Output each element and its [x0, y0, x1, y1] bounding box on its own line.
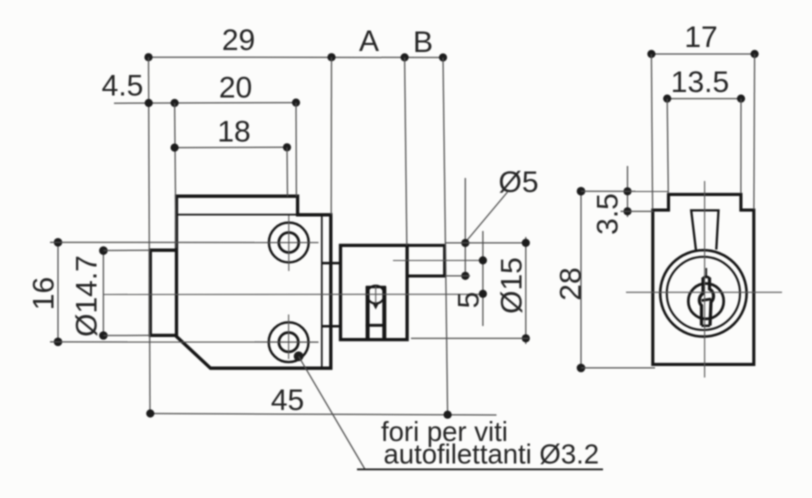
cylinder boss: [150, 250, 176, 335]
svg-text:45: 45: [271, 384, 304, 417]
svg-text:Ø5: Ø5: [498, 166, 538, 199]
screw hole lower: [269, 315, 309, 363]
svg-text:Ø15: Ø15: [496, 257, 529, 314]
leader line to note: [299, 356, 365, 469]
svg-text:5: 5: [453, 292, 486, 309]
dimension diameter 15: [411, 237, 530, 344]
dimension 45: [146, 409, 496, 418]
adjusting screw circle: [367, 286, 385, 304]
body outline front view: [653, 194, 754, 364]
horizontal centerline front view: [626, 291, 782, 293]
faceplate inner line: [321, 216, 323, 368]
svg-text:Ø14.7: Ø14.7: [71, 255, 104, 337]
note underline: [357, 468, 603, 470]
keyhole: [699, 268, 713, 326]
latch pin arm: [407, 245, 445, 276]
svg-text:18: 18: [217, 116, 250, 149]
slot inner line: [366, 324, 386, 327]
dimension 17: [647, 50, 758, 210]
svg-text:16: 16: [28, 277, 61, 310]
svg-text:13.5: 13.5: [671, 66, 729, 99]
dimension diameter 5 with leader: [446, 178, 529, 280]
svg-text:4.5: 4.5: [102, 70, 144, 103]
leader dot on lower screw hole: [294, 351, 304, 361]
dimension 28: [577, 187, 668, 372]
dimension 29 / A / B: [144, 53, 447, 415]
vertical centerline front view: [704, 181, 706, 378]
cylinder outer circle: [660, 250, 746, 336]
svg-text:28: 28: [555, 267, 588, 300]
pin centerline: [393, 259, 486, 261]
svg-text:17: 17: [684, 21, 717, 54]
screw hole upper: [269, 216, 309, 272]
body outline left view: [177, 196, 331, 368]
slot top edge: [366, 286, 386, 289]
latch tab lower stub: [322, 325, 341, 328]
cam block: [341, 245, 408, 339]
svg-text:20: 20: [219, 72, 252, 105]
dimension 18: [171, 143, 292, 196]
svg-text:autofilettanti Ø3.2: autofilettanti Ø3.2: [384, 439, 600, 470]
svg-text:29: 29: [222, 24, 255, 57]
dimension 16: [50, 238, 319, 346]
body top plate line: [177, 214, 298, 216]
dimension diameter 14.7: [99, 246, 150, 340]
key cap trapezoid: [691, 210, 718, 249]
cylinder inner ring: [667, 257, 740, 330]
svg-text:B: B: [413, 26, 433, 59]
dimension 3.5: [621, 166, 654, 217]
slot right wall: [382, 287, 386, 340]
main centerline: [103, 293, 486, 295]
slot left wall: [366, 287, 370, 340]
dimension 5 offset: [479, 231, 487, 326]
svg-text:3.5: 3.5: [592, 193, 625, 235]
dimension 4.5 and 20: [114, 99, 300, 249]
dimension 13.5: [663, 95, 745, 194]
latch tab upper stub: [322, 262, 341, 265]
svg-text:A: A: [359, 25, 379, 58]
adjusting screw vertical tick: [375, 286, 377, 307]
plug circle: [688, 284, 723, 319]
